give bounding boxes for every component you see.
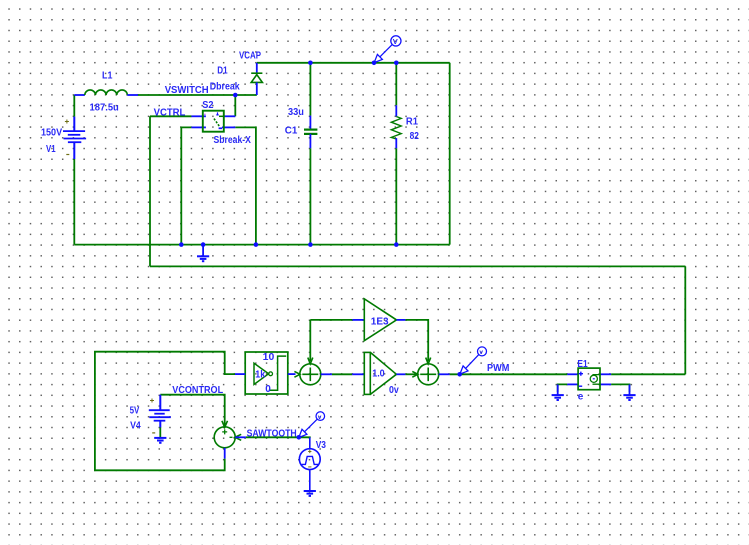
capacitor C1 — [304, 116, 317, 149]
junction S2 right rail — [254, 242, 259, 247]
V3 plus mark — [308, 450, 311, 453]
battery V4 — [149, 395, 171, 428]
svg-text:VSWITCH: VSWITCH — [165, 85, 209, 96]
wire gain 1.0 to summer2 — [405, 373, 417, 375]
svg-text:V3: V3 — [316, 440, 327, 451]
limiter output pin — [288, 373, 296, 375]
wire E1 output to feedback — [611, 373, 685, 375]
ground G4 E1 left — [552, 384, 564, 400]
wire summer1 to gain 1.0 — [332, 373, 352, 375]
wire E1 out minus to ground — [611, 384, 629, 392]
ground G1 rail — [197, 245, 209, 262]
junction PWM node — [457, 372, 462, 377]
gain 1.0 — [352, 352, 405, 394]
wire R1 bottom — [395, 148, 397, 244]
junction S2 left rail — [179, 242, 184, 247]
source V3 — [299, 437, 320, 491]
svg-text:Dbreak: Dbreak — [210, 81, 240, 92]
wire bottom rail — [74, 244, 449, 246]
ground G5 E1 right — [623, 384, 635, 400]
svg-text:Sbreak-X: Sbreak-X — [214, 135, 252, 146]
svg-text:S2: S2 — [202, 100, 214, 111]
svg-text:0: 0 — [265, 384, 271, 395]
svg-text:187.5u: 187.5u — [90, 103, 119, 114]
wire SAWTOOTH — [246, 436, 310, 439]
svg-text:V: V — [393, 37, 398, 46]
wire PWM — [450, 373, 568, 375]
switch S2 — [191, 111, 235, 132]
svg-text:1.0: 1.0 — [372, 368, 385, 379]
svg-text:VCONTROL: VCONTROL — [172, 385, 223, 396]
svg-text:D1: D1 — [217, 66, 228, 77]
wire E1 in minus to ground — [558, 384, 568, 392]
svg-text:0v: 0v — [389, 385, 399, 396]
resistor R1 — [391, 105, 401, 148]
wire 1E3 input — [310, 319, 352, 321]
summer SUM1 output pin — [321, 373, 332, 375]
probe VCAP — [374, 36, 401, 63]
svg-text:5V: 5V — [130, 406, 140, 417]
junction C1 top — [308, 61, 313, 66]
svg-text:10: 10 — [263, 352, 275, 363]
summer SUM3 output pin — [224, 448, 226, 459]
junction C1 rail — [308, 242, 313, 247]
diode D1 — [251, 63, 262, 95]
wire right side vertical — [449, 63, 451, 245]
svg-text:E1: E1 — [577, 359, 588, 370]
junction R1 rail — [394, 242, 399, 247]
V4 minus mark — [152, 432, 155, 434]
junction ground rail — [201, 242, 206, 247]
wire VCONTROL — [160, 395, 224, 427]
source E1 — [567, 368, 611, 390]
svg-text:SAWTOOTH: SAWTOOTH — [247, 429, 297, 440]
svg-text:1k: 1k — [255, 369, 265, 380]
wire VCTRL horizontal — [150, 115, 191, 117]
svg-text:1E3: 1E3 — [371, 316, 389, 327]
ground G3 V3 — [304, 491, 316, 496]
wire 1E3 output to summer2 top — [405, 320, 428, 361]
V1 minus mark — [66, 154, 69, 156]
svg-text:PWM: PWM — [487, 363, 509, 374]
summer SUM1 — [294, 358, 320, 385]
svg-text:82: 82 — [410, 131, 420, 142]
inductor L1 — [74, 90, 138, 95]
wire C1 top — [309, 63, 311, 116]
wire S2 lower left to rail — [181, 127, 191, 244]
junction R1 top — [394, 61, 399, 66]
svg-text:150V: 150V — [41, 127, 62, 138]
summer SUM2 — [412, 358, 438, 385]
svg-text:V4: V4 — [130, 420, 141, 431]
svg-text:v: v — [318, 414, 322, 421]
junction SAWTOOTH node — [297, 435, 302, 440]
svg-text:VCTRL: VCTRL — [154, 108, 186, 119]
wire VSWITCH horizontal — [138, 94, 257, 96]
V1 plus mark — [65, 120, 69, 124]
V4 plus mark — [150, 399, 154, 403]
gain 1E3 — [352, 299, 405, 341]
wire V4 bottom to ground — [159, 427, 161, 438]
wire V1 bottom — [73, 159, 75, 245]
wire S2 lower right to rail — [235, 127, 256, 244]
svg-text:L1: L1 — [102, 71, 113, 82]
battery V1 — [63, 117, 86, 159]
svg-text:e: e — [578, 392, 584, 403]
wire R1 top — [395, 63, 397, 106]
svg-text:V1: V1 — [46, 144, 56, 155]
wire feedback horizontal — [150, 265, 685, 267]
wire V1 top vertical — [73, 95, 75, 117]
svg-text:33u: 33u — [288, 107, 304, 118]
wire VCAP top — [257, 62, 450, 64]
probe SAWTOOTH — [299, 412, 325, 438]
junction probe VCAP — [372, 61, 377, 66]
wire summer1 top input — [309, 320, 311, 361]
wire feedback right vertical — [684, 266, 686, 374]
wire S2 to VSWITCH vertical — [234, 95, 236, 116]
V3 minus mark — [308, 466, 311, 468]
limiter U1 — [245, 352, 288, 394]
svg-text:VCAP: VCAP — [239, 51, 261, 62]
junction VSWITCH node — [233, 93, 238, 98]
wire C1 bottom — [309, 148, 311, 244]
ground G2 V4 — [154, 438, 166, 443]
summer SUM2 output pin — [439, 373, 450, 375]
wire left control loop — [95, 352, 235, 471]
summer SUM3 right pin — [235, 436, 246, 438]
svg-text:v: v — [479, 349, 483, 356]
limiter input pin — [235, 373, 245, 375]
wire VCTRL vertical feedback — [149, 116, 151, 266]
svg-text:R1: R1 — [406, 116, 419, 127]
svg-text:C1: C1 — [285, 126, 298, 137]
probe PWM — [460, 347, 487, 374]
summer SUM3 difference — [214, 421, 241, 448]
